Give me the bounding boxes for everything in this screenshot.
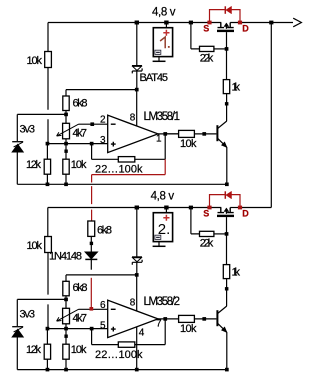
transistor Q1 base bar [216,125,218,141]
node bus2-12k [46,368,50,372]
node red chain to pin6 [90,307,94,311]
battery 2 plus sign [163,215,169,221]
resistor 6k8 (1) body [63,96,69,111]
battery 1 bottom bar [153,60,166,62]
resistor 12k (2) body [44,344,50,359]
svg-text:6k8: 6k8 [73,98,88,110]
svg-text:6: 6 [100,300,106,311]
battery 2 bottom bar [153,245,166,247]
wire 1k to collector Q2 [226,279,228,306]
wire pot 4k7 (1) bottom lead [65,139,67,144]
node pin3-feedback (1) [90,142,94,146]
svg-text:S: S [203,208,209,218]
wire supply node to pin8 [66,89,137,91]
node output-feedback (2) [163,317,167,321]
svg-text:22k: 22k [200,53,214,65]
wire 12k top lead [46,144,48,160]
wire 12k bottom lead [46,174,48,184]
battery 1 box [153,28,172,57]
diode schottky (2) top lead [136,208,138,257]
svg-text:10k: 10k [180,138,197,150]
wire 6k8 (2) top lead [65,275,67,281]
battery 2 box [153,213,172,242]
wire top-left corner vertical [47,23,49,52]
MOSFET T2 gate lead [226,217,228,234]
svg-text:3v3: 3v3 [20,124,36,136]
body diode T1 triangle [226,6,232,14]
node bus1-emitter Q1 [225,183,229,187]
body diode T1 cathode bar [224,6,226,14]
wire bus2 ground rail [17,369,227,371]
wire 10k(2) to pin5 node [47,253,49,329]
wire rail2 mosfet-to-D segment [230,207,240,209]
MOSFET T1 substrate arrow [224,23,229,29]
wire feedback vertical to pin5 (2) [91,329,93,345]
wire 22k (1) from rail [191,23,200,49]
wire rail2 left segment [48,207,222,209]
resistor 1k (1) body [223,80,229,94]
resistor 10k upper-left body [45,52,52,68]
wire BAT45 cathode to supply node [136,71,138,90]
svg-text:S: S [203,23,209,33]
node bus2-pin4 [135,368,139,372]
wire op-amp2 output [158,318,179,320]
svg-text:6k8: 6k8 [73,282,88,294]
svg-text:8: 8 [130,112,136,123]
resistor 22k (2) body [200,231,214,236]
svg-text:LM358/2: LM358/2 [144,296,181,308]
node rail1-battery1 [164,21,168,25]
node rail1-22k [189,21,193,25]
wire rail2 right segment to output [240,207,271,209]
body diode T2 triangle [226,191,232,199]
svg-text:1N4148: 1N4148 [49,251,82,263]
svg-text:LM358/1: LM358/1 [144,111,181,123]
wire zener vertical upper [16,114,18,141]
node 1k-collector dot (2) [225,287,229,290]
resistor 10k base (1) body [179,130,195,137]
resistor 10k divider (1) body [63,159,69,174]
resistor 6k8 (2) body [63,281,69,296]
wire supply node to pin8 (2) [66,274,137,276]
wire 10k divider (2) top lead [65,329,67,345]
wire pot 4k7 (2) bottom lead [65,324,67,329]
transistor Q2 emitter stroke [218,323,227,332]
node 10k divider mid dot (1) [64,150,67,153]
node pin3-pot (1) [64,142,68,146]
wire gate node to 1k (2) [226,234,228,265]
node 6k8 chain-1N4148 dot [90,242,93,245]
junction dots black [46,21,274,372]
wire red chain below 1N4148 to pin6 node [90,278,92,309]
output arrow top right [293,18,301,27]
battery 1 plus sign [163,30,169,36]
diode BAT45 symbol [132,66,142,74]
svg-text:4: 4 [139,328,145,339]
svg-text:10k: 10k [71,344,87,356]
wire red link output1 down [164,159,166,174]
svg-text:BAT45: BAT45 [140,72,169,84]
zener diode 3v3 (2) symbol [12,327,23,337]
node 10k divider mid dot (2) [64,335,67,338]
node rail1-BAT45 [135,21,139,25]
svg-text:8: 8 [130,298,136,309]
MOSFET T2 substrate arrow [224,208,229,214]
op-amp2 minus sign [111,308,116,310]
wire zener to bus1 [16,152,18,185]
resistor 10k upper-left (2) body [45,237,52,253]
node pin3-12k (1) [46,142,50,146]
wire op-amp1 pin8 supply lead [136,90,138,126]
body diode loop T2 [210,195,241,208]
MOSFET T1 drain stub [227,23,234,28]
wire pot 4k7 (2) top lead [65,299,67,308]
resistor 10k divider (2) body [63,344,69,359]
wire feedback horizontal right (2) [135,344,165,346]
wire emitter Q1 to bus1 [226,147,228,184]
battery 1 minus sign [155,50,161,54]
resistor 6k8 chain body [88,221,95,236]
wire schottky(2) cathode to supply node [136,262,138,275]
svg-text:10k: 10k [180,323,197,335]
wire 10k to base Q1 [194,133,216,135]
node D T1 [238,21,242,25]
node rail1-output [269,21,273,25]
MOSFET T2 source stub [218,208,225,213]
wire 10k to base Q2 [194,318,216,320]
node 6k8-pot (1) [64,113,68,117]
node wiper-pin2 (1) [90,122,94,126]
svg-text:6k8: 6k8 [97,225,112,237]
wire 1k to collector Q1 [226,94,228,121]
wire 22k (2) to gate node [214,233,227,235]
body diode T2 cathode bar [224,191,226,199]
svg-text:12k: 12k [26,344,42,356]
wire 6k8 (2) bottom lead [65,296,67,300]
svg-text:D: D [242,208,249,218]
battery 1 number label [160,37,170,48]
svg-text:22…100k: 22…100k [95,349,143,361]
svg-text:D: D [242,23,249,33]
wire 6k8 chain to 1N4148 [90,236,92,252]
node bus2-emitter Q2 [225,368,229,372]
wire zener vertical upper (2) [16,299,18,326]
svg-text:1: 1 [156,134,162,145]
wire feedback horizontal right [135,158,165,160]
wire pot 4k7 (1) top lead [65,114,67,123]
wire 22k (1) to gate node [214,48,227,50]
node output-feedback (1) [163,132,167,136]
potentiometer 4k7 (1) body [63,123,70,139]
svg-text:22…100k: 22…100k [95,164,143,176]
op-amp2 plus sign [111,327,116,332]
node D T2 [238,206,242,210]
svg-text:7: 7 [156,319,162,330]
wire gate node to 1k [226,49,228,80]
svg-text:4,8 v: 4,8 v [151,190,175,202]
wire zener(2) to bus2 [16,337,18,370]
node bus2-10k [64,368,68,372]
wire feedback horizontal left [92,158,119,160]
wire feedback horizontal left (2) [92,344,119,346]
resistor 22k (1) body [200,46,214,51]
svg-text:4k7: 4k7 [73,128,88,140]
wire 22k (2) from rail [191,208,200,234]
resistor 12k (1) body [44,159,50,174]
wire red link horizontal [92,174,166,176]
svg-text:10k: 10k [27,240,43,252]
wire op-amp2 pin4 ground lead [136,327,138,370]
resistor 1k (2) body [223,265,229,279]
node output-10k dot (2) [202,317,206,321]
svg-text:2: 2 [100,115,106,126]
node gate-22k (1) [225,47,229,51]
wire zener branch horizontal (2) [17,298,66,300]
battery 2 bottom stub [158,242,160,246]
svg-text:4,8 v: 4,8 v [152,7,176,19]
node gate-22k (2) [225,232,229,236]
wire output node right vertical [270,23,272,208]
diode schottky (2) symbol [132,257,142,265]
node bus1-10k [64,183,68,187]
MOSFET T1 source stub [218,23,225,28]
wire bus1 ground rail [17,183,227,185]
op-amp U1 LM358/1 triangle [108,115,158,152]
node 6k8-pot (2) [64,298,68,302]
wire op-amp2 pin5 input [47,328,107,330]
wire 12k (2) bottom lead [46,359,48,369]
node S T1 [207,21,211,25]
wire feedback vertical from output (2) [164,319,166,345]
node supply-pin8 (1) [135,88,139,92]
resistor 22...100k (2) body [118,342,135,347]
resistor 10k base (2) body [179,315,195,322]
wire 1N4148 cathode down [90,259,92,269]
wire 6k8 (1) bottom lead [65,111,67,115]
wire rail1 top supply left segment [48,22,221,24]
diode D1 1N4148 cathode bar [85,258,97,260]
transistor Q2 base bar [216,310,218,326]
svg-text:10k: 10k [27,55,43,67]
node rail2-schottky [135,206,139,210]
wire wiper to op-amp1 pin2 [79,123,108,125]
MOSFET T2 drain stub [227,208,234,213]
op-amp1 plus sign [111,142,116,147]
wire 10k divider top lead [65,144,67,160]
transistor Q2 collector stroke [218,306,227,314]
node bus1-12k [46,183,50,187]
wire zener branch horizontal [17,113,66,115]
potentiometer 4k7 (2) wiper arrow [57,309,79,321]
wire emitter Q2 to bus2 [226,332,228,369]
node S T2 [207,206,211,210]
svg-text:1k: 1k [232,267,241,279]
wire op-amp1 pin3 input [47,143,107,145]
svg-text:4k7: 4k7 [73,313,88,325]
wire op-amp1 output [158,133,179,135]
node pin5-pot (2) [64,327,68,331]
transistor Q1 collector stroke [218,121,227,129]
node supply-pin8 (2) [135,273,139,277]
svg-text:10k: 10k [71,159,87,171]
battery 2 top lead [165,208,167,213]
node pin5-feedback (2) [90,327,94,331]
MOSFET T1 gate bar [217,30,234,32]
svg-text:22k: 22k [200,238,214,250]
wire op-amp1 output to 10k base resistor [165,133,178,135]
diode BAT45 top lead [136,23,138,66]
wire 10k to node A [47,68,49,144]
potentiometer 4k7 (2) body [63,308,70,324]
MOSFET T1 gate lead [226,32,228,49]
potentiometer 4k7 (1) wiper arrow [57,124,79,136]
wire rail1 top supply right segment [230,22,293,24]
transistor Q1 emitter arrowhead [222,142,227,147]
transistor Q2 emitter arrowhead [222,327,227,332]
svg-text:5: 5 [100,320,106,331]
wire red link vertical to 6k8 chain [91,175,93,221]
node rail2-22k [189,206,193,210]
op-amp U2 LM358/2 triangle [108,300,158,337]
svg-text:3: 3 [100,135,106,146]
transistor Q1 emitter stroke [218,138,227,147]
wire feedback vertical to pin3 [91,144,93,160]
zener diode 3v3 (1) symbol [12,142,23,152]
wire 10k divider bottom lead [65,174,67,184]
node rail2-battery2 [164,206,168,210]
node output-10k dot (1) [202,132,206,136]
node 1k-collector dot (1) [225,102,229,105]
svg-text:3v3: 3v3 [20,309,36,321]
node pin5-12k (2) [46,327,50,331]
battery 1 bottom stub [158,57,160,61]
junction dots red [90,21,243,311]
wire 6k8 (1) top lead [65,90,67,96]
wire feedback vertical from output [164,134,166,159]
op-amp1 minus sign [111,123,116,125]
resistor 22...100k (1) body [118,157,135,162]
svg-text:1k: 1k [232,82,241,94]
wire wiper to op-amp2 pin6 [79,308,108,310]
wire 10k divider (2) bottom lead [65,359,67,369]
battery 2 minus sign [155,235,161,239]
wire top-left corner vertical section2 [47,208,49,237]
battery 1 top lead [165,23,167,28]
wire op-amp2 pin8 supply lead [136,275,138,311]
svg-text:12k: 12k [26,159,42,171]
MOSFET T2 gate bar [217,215,234,217]
body diode loop T1 [210,10,241,23]
wire 12k (2) top lead [46,329,48,345]
diode D1 1N4148 triangle [85,252,98,259]
